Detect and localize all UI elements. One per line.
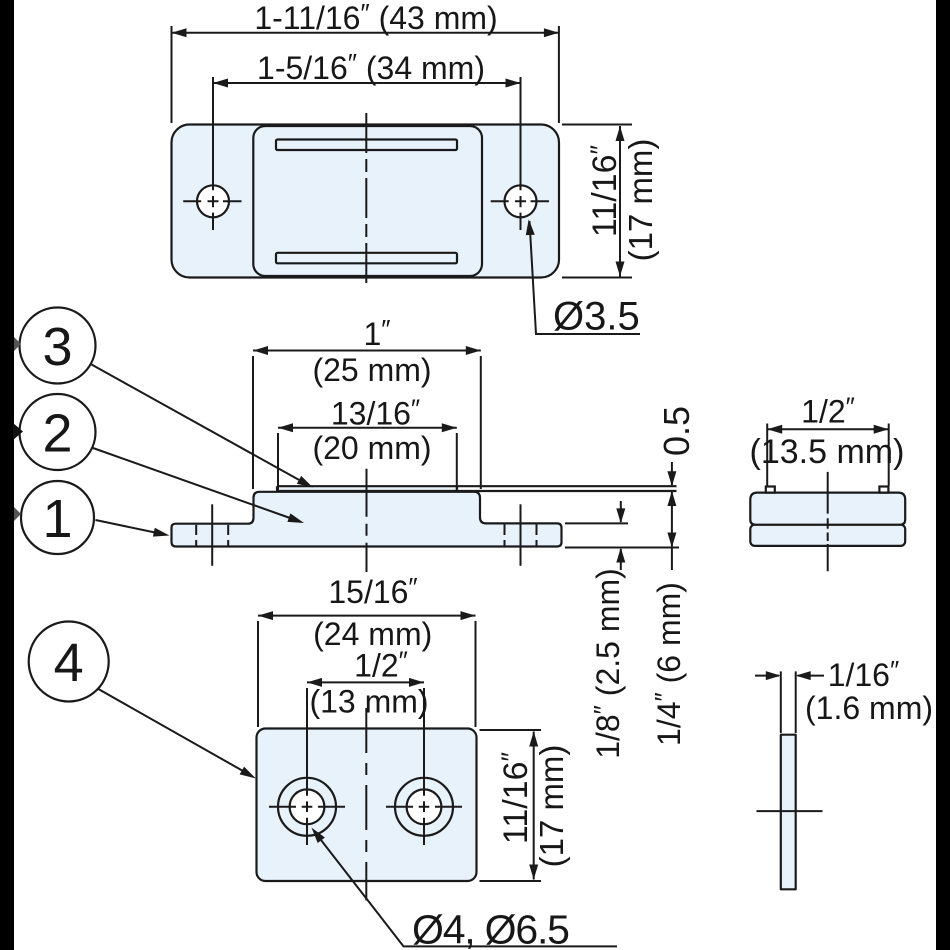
cover strip lines (part 3) with extension to 0.5 dim [277, 486, 677, 491]
shared bottom extension line [565, 547, 679, 549]
extension lines 43mm [172, 26, 559, 123]
svg-text:11/16″: 11/16″ [496, 752, 535, 845]
dimension line 15/16 (24 mm) [258, 615, 476, 617]
end view plate (bottom layer) [750, 525, 905, 546]
edge view extension lines up [781, 671, 796, 733]
svg-text:(25 mm): (25 mm) [312, 352, 431, 388]
catch side profile (plate + housing) [172, 492, 562, 547]
extension lines 17mm height [562, 125, 632, 278]
side view centerline [366, 469, 368, 572]
0.5 dim arrows [671, 462, 673, 570]
crop mark callout 3 [14, 337, 21, 351]
svg-text:15/16″: 15/16″ [328, 572, 417, 610]
end view centerline [827, 472, 829, 571]
svg-text:(1.6 mm): (1.6 mm) [805, 690, 933, 726]
svg-text:(13.5 mm): (13.5 mm) [750, 433, 905, 471]
leader from callout 1 [96, 520, 156, 533]
left hole crosshair [269, 688, 345, 845]
edge view hole centerline [757, 810, 823, 812]
hole right (top view) [505, 185, 537, 217]
strike hole right [407, 789, 442, 824]
extension line wing top for 2.5mm dim [565, 522, 628, 524]
leader line for hole diameter [530, 221, 641, 334]
svg-text:(17 mm): (17 mm) [622, 139, 659, 262]
strike hole right countersink [395, 778, 453, 836]
svg-text:1: 1 [42, 489, 72, 549]
hole right crosshair [491, 77, 549, 230]
svg-text:4: 4 [54, 633, 84, 693]
svg-text:13/16″: 13/16″ [331, 394, 420, 432]
1/8 (2.5mm) dim arrows [620, 501, 622, 570]
cover strip fill (part 3) [277, 486, 457, 491]
catch end view housing [750, 493, 905, 525]
dimension line 13/16 (20 mm) [278, 427, 457, 429]
svg-text:Ø3.5: Ø3.5 [553, 295, 640, 339]
magnet housing outline (top view) [253, 126, 482, 276]
dimension line 1-5/16 (34 mm) [213, 82, 521, 84]
right hole crosshair [386, 688, 462, 845]
dimension line 11/16 (17mm) vertical [619, 126, 621, 277]
strike plate (bottom view) [257, 729, 477, 882]
right wing hole centerline (side) [520, 504, 522, 566]
svg-text:1/8″ (2.5 mm): 1/8″ (2.5 mm) [588, 568, 626, 759]
crop mark callout 2 [13, 423, 23, 440]
svg-text:11/16″: 11/16″ [585, 145, 624, 238]
svg-text:1-5/16″ (34 mm): 1-5/16″ (34 mm) [257, 48, 485, 86]
svg-text:(20 mm): (20 mm) [312, 430, 431, 466]
leader from callout 3 [92, 365, 302, 482]
right wing hole edges (side) [505, 524, 537, 545]
svg-text:(13 mm): (13 mm) [309, 684, 428, 720]
end view left tab [766, 487, 775, 493]
end view right tab [879, 487, 888, 493]
crop mark callout 1 [14, 507, 21, 521]
svg-text:2: 2 [42, 404, 72, 464]
leader line for strike hole diameters [314, 831, 617, 946]
strike plate centerline [365, 708, 367, 901]
left wing hole edges (side) [196, 525, 228, 546]
dimension line 1/2 (13.5 mm) [767, 428, 889, 430]
svg-text:3: 3 [42, 317, 72, 377]
extension lines 24mm [258, 621, 476, 727]
svg-text:(17 mm): (17 mm) [533, 745, 570, 868]
svg-text:1-11/16″ (43 mm): 1-11/16″ (43 mm) [254, 0, 497, 36]
extension lines 13.5mm [767, 424, 889, 487]
slot upper [276, 140, 457, 151]
dimension line 11/16 (17 mm) vertical (bottom view) [533, 732, 535, 880]
strike hole left [290, 789, 325, 824]
callout circle 1 [21, 481, 94, 554]
extension lines 25mm [253, 356, 481, 489]
left crop bar [0, 0, 14, 950]
leader from callout 2 [93, 448, 290, 518]
catch body plate (top view) [172, 125, 560, 278]
1/16 dim arrows [755, 675, 824, 677]
svg-text:0.5: 0.5 [656, 406, 697, 456]
strike hole left countersink [278, 778, 336, 836]
strike plate edge view [781, 735, 796, 890]
dimension line 1/2 (13 mm) [307, 681, 424, 683]
dimension line 1-11/16 (43 mm) [172, 32, 559, 34]
extension lines 17mm (bottom view) [480, 730, 542, 881]
leader from callout 4 [98, 689, 244, 772]
callout circle 4 [29, 622, 109, 702]
extension lines 20mm [278, 433, 457, 491]
left wing hole centerline (side) [211, 504, 213, 566]
hole left (top view) [197, 185, 229, 217]
hole left crosshair [183, 77, 241, 230]
right crop bar [936, 0, 950, 950]
vertical centerline of top view [365, 113, 367, 289]
slot lower [276, 253, 457, 263]
dimension line 1 inch (25 mm) [253, 350, 481, 352]
svg-text:1/4″ (6 mm): 1/4″ (6 mm) [649, 582, 687, 746]
svg-text:1/16″: 1/16″ [828, 655, 900, 693]
svg-text:Ø4, Ø6.5: Ø4, Ø6.5 [412, 907, 569, 950]
callout circle 2 [20, 394, 96, 470]
callout circle 3 [20, 308, 96, 384]
